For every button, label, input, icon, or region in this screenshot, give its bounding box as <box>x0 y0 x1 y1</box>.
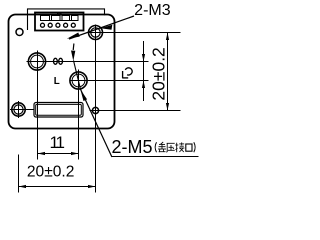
dim 20 bottom arrow right <box>88 185 96 188</box>
centerline horizontal bottom-right <box>90 110 181 112</box>
dim 20 right line <box>167 33 169 111</box>
leader 2-M3 line <box>69 16 134 39</box>
dim 11 arrow left <box>38 152 46 155</box>
slot inner <box>36 104 82 115</box>
dim 5 arrow upper <box>142 54 145 62</box>
svg-text:20±0.2: 20±0.2 <box>148 47 168 100</box>
hole M3 top-right outer <box>89 26 103 40</box>
hole M3 bottom-left outer <box>12 103 25 116</box>
svg-text:20±0.2: 20±0.2 <box>27 164 75 181</box>
ring symbol 2 <box>59 58 63 64</box>
body outline <box>9 15 115 129</box>
centerline horizontal top-right <box>88 32 181 34</box>
slot outer <box>34 103 83 118</box>
dim 11 line <box>38 153 79 155</box>
connector pin 4 <box>64 23 68 27</box>
dim 11 arrow right <box>71 152 79 155</box>
centerline vertical right column <box>95 25 97 193</box>
leader 2-M5 arrowhead at port B <box>80 89 87 101</box>
dim 5 line <box>143 41 145 101</box>
centerline vertical port B / ext dim 11 <box>78 70 80 160</box>
port M5 A inner <box>31 55 44 68</box>
dim 5 arrow lower <box>142 81 145 89</box>
centerline horizontal bottom-left <box>10 109 34 111</box>
hanzi cha <box>158 142 166 152</box>
hanzi jie <box>175 142 184 152</box>
text 5 rotated <box>122 68 132 78</box>
centerline vertical port A / ext dim 11 <box>37 51 39 160</box>
leader 2-M3 arrowhead at end <box>67 33 80 39</box>
hanzi kou <box>186 144 192 151</box>
connector keying strip <box>40 13 79 20</box>
arrow complex line <box>72 44 75 51</box>
leader shelf underline <box>112 156 199 158</box>
arrow complex head <box>71 51 75 62</box>
svg-text:2-M5: 2-M5 <box>112 136 153 157</box>
hole M3 top-right inner <box>91 28 100 37</box>
hole bottom-right <box>92 107 98 113</box>
svg-text:2-M3: 2-M3 <box>134 2 171 19</box>
leader 2-M5 line <box>81 89 112 157</box>
extension line bottom-left dim 20 <box>18 155 20 193</box>
connector pin 2 <box>48 23 52 27</box>
svg-text:1: 1 <box>56 133 65 152</box>
ring symbol 1 <box>54 58 58 64</box>
connector pin 1 <box>41 23 45 27</box>
hole top-left <box>16 29 23 36</box>
dim 20 bottom arrow left <box>19 185 27 188</box>
dim 20 right arrow top <box>166 33 169 41</box>
port M5 B outer <box>70 72 87 89</box>
connector housing <box>35 13 84 31</box>
centerline vertical bottom-left <box>18 101 20 118</box>
hanzi paren open <box>155 142 156 152</box>
leader 2-M3 arrowhead at hole <box>101 25 113 30</box>
dim 20 right arrow bottom <box>166 103 169 111</box>
port M5 A outer <box>28 53 45 70</box>
hanzi ya <box>166 143 175 152</box>
svg-text:L: L <box>54 76 60 87</box>
connector pin 3 <box>56 23 60 27</box>
centerline horizontal port B <box>70 80 149 82</box>
hole M3 bottom-left inner <box>14 105 23 114</box>
port M5 B inner <box>72 74 85 87</box>
connector mounting plate <box>28 9 105 30</box>
dim 20 bottom line <box>19 186 96 188</box>
centerline horizontal port A <box>27 61 149 63</box>
connector pin 5 <box>71 23 75 27</box>
hanzi paren close <box>194 142 195 152</box>
